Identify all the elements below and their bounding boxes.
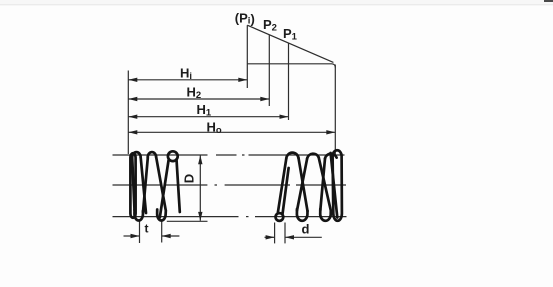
coil 1 left side: [132, 158, 134, 211]
coil rising stroke U2 to bump3: [320, 159, 325, 211]
svg-text:H2: H2: [187, 85, 202, 102]
coil back stroke to circle: [283, 168, 289, 213]
extension line t right: [161, 222, 163, 243]
coil 1 right side down stroke: [141, 158, 146, 214]
coil bump2 top arc: [307, 154, 319, 159]
dimension line H0: [128, 131, 335, 133]
arrow H2 right: [260, 97, 269, 101]
dimension line d right arrow tail: [285, 236, 322, 238]
wire: right vertical line to spring top: [334, 65, 336, 155]
coil U1 bottom arc: [134, 210, 143, 221]
coil end narrow stadium: [130, 153, 135, 218]
wire: bottom tangent line right: [255, 216, 347, 218]
axis and tangent lines: [113, 155, 347, 217]
wire end circle (cross-section): [276, 213, 284, 221]
dimension line H2: [128, 98, 269, 100]
right spring (free length): [276, 150, 342, 221]
svg-text:(Pi): (Pi): [235, 11, 255, 27]
coil rising stroke U1 to bump2: [143, 158, 148, 212]
coil rising stroke U2 to end circle: [160, 160, 169, 218]
wire: bottom tangent line left: [113, 216, 239, 218]
coil U2 bottom arc: [157, 210, 166, 221]
dimension line H1: [128, 116, 288, 118]
coil U2 bottom arc: [320, 209, 331, 221]
arrowheads: [128, 78, 335, 240]
scan artifact top band: [0, 0, 553, 4]
arrow d right: [285, 235, 294, 239]
node P1 vertical line: [288, 43, 290, 120]
wire: slanted load line: [247, 25, 333, 62]
arrow D top: [198, 155, 202, 164]
coil bump 2 top arc: [148, 152, 157, 158]
scan artifact top-right dark mark: [544, 0, 553, 2]
coil right stadium: [333, 150, 342, 221]
dimension line t left arrow tail: [124, 235, 140, 237]
svg-text:Hi: Hi: [180, 66, 192, 83]
svg-text:D: D: [182, 174, 197, 183]
svg-text:P1: P1: [283, 26, 298, 43]
wire end tail stroke: [177, 160, 180, 213]
dimension line Hi: [128, 79, 247, 81]
coil bump3 inner down stroke: [331, 153, 338, 218]
arrow H1 left: [128, 115, 137, 119]
arrow D bottom: [198, 212, 202, 221]
wire: top horizontal line: [247, 64, 335, 68]
arrow t right: [162, 234, 171, 238]
arrow H1 right: [280, 115, 289, 119]
coil bump1 down stroke to U1: [299, 158, 308, 211]
svg-text:P2: P2: [263, 17, 277, 34]
coil stroke circle to bump1: [278, 159, 287, 213]
wire: center axis dash-dot: [113, 184, 347, 186]
dimension line t right arrow tail: [162, 235, 180, 237]
svg-text:H1: H1: [197, 102, 212, 119]
wire: top tangent dash-dot middle: [216, 154, 245, 156]
arrow d left: [266, 235, 275, 239]
wire: left extension line for H dims: [127, 71, 129, 155]
svg-text:t: t: [145, 222, 149, 236]
svg-text:d: d: [302, 222, 310, 237]
dimension line d left arrow tail: [265, 236, 275, 238]
text labels: [145, 11, 310, 237]
coil bump1 top arc: [286, 153, 298, 159]
coil bump3 top arc: [325, 154, 337, 159]
extension line d left: [274, 223, 276, 244]
svg-text:Ho: Ho: [207, 120, 222, 137]
arrow t left: [131, 234, 140, 238]
dimension line D vertical: [199, 155, 201, 220]
wire end circle: [168, 151, 178, 161]
wire: bottom tangent dot: [246, 216, 249, 218]
arrow H0 right: [326, 130, 335, 134]
arrow Hi left: [128, 78, 137, 82]
extension line D bottom tangent: [167, 220, 208, 222]
node (Pi) vertical line: [246, 25, 248, 88]
node P2 vertical line: [268, 35, 270, 106]
coil U1 bottom arc: [297, 209, 308, 221]
coil bump2 down stroke to U2: [319, 157, 331, 210]
extension line d right: [284, 223, 286, 244]
extension line t left: [139, 222, 141, 244]
wire: top tangent line solid left: [113, 154, 208, 156]
arrow Hi right: [238, 78, 247, 82]
wire: top tangent line solid right: [249, 154, 345, 156]
arrow H2 left: [128, 97, 137, 101]
coil bump 1 top arc: [132, 152, 141, 157]
coil rising stroke U1 to bump2: [297, 158, 307, 210]
arrow H0 left: [128, 130, 137, 134]
coil 2 right side down stroke: [156, 157, 166, 210]
left spring (compressed, solid height): [130, 151, 179, 220]
